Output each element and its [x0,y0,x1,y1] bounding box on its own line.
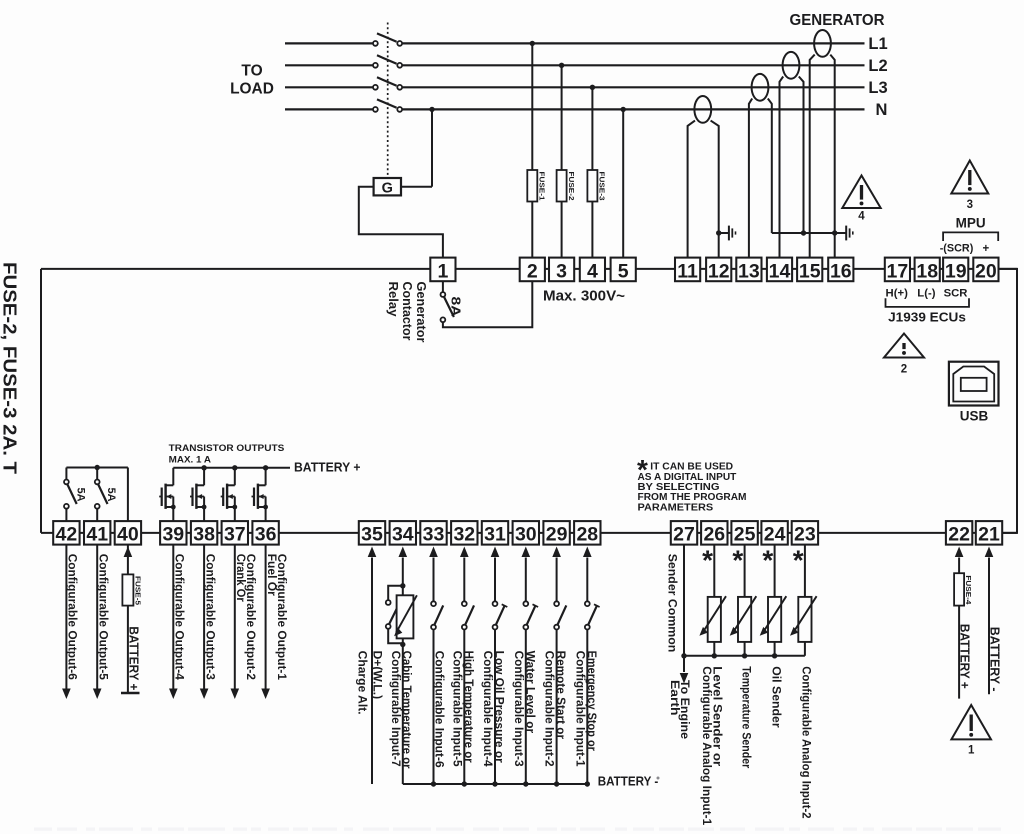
ground at terminal 12 [716,226,736,241]
wire N to G [429,107,434,187]
label Temperature Sender [739,666,753,768]
thermistor (term 34) [394,595,417,638]
label Configurable Output-3 [203,554,217,681]
svg-text:16: 16 [830,260,852,282]
output wire terminal 36 [261,545,270,699]
wire common to terminal 16 [834,233,836,258]
svg-text:13: 13 [738,260,760,282]
svg-text:18: 18 [916,260,938,282]
svg-text:5A: 5A [75,488,87,502]
wire+junction L1 to terminal 2 [527,41,537,258]
svg-text:4: 4 [587,260,598,282]
transistor output Q36 [252,468,269,521]
label Fuel Or Configurable Output-1 [265,554,289,681]
scan artifact strip (cut-off text) [34,828,1001,831]
wire G left to terminal 1 [359,187,443,258]
label Level Sender or Configurable Analog Input-1 [700,666,725,825]
svg-text:*: * [732,544,743,575]
label MPU [956,216,986,231]
sender wire terminal 26 [713,545,715,656]
svg-text:FUSE-1: FUSE-1 [538,172,547,201]
svg-text:31: 31 [484,524,506,546]
svg-text:Configurable Input-6: Configurable Input-6 [433,651,447,768]
svg-text:12: 12 [708,260,730,282]
label FUSE-2, FUSE-3 2A.T [0,262,20,474]
input switch terminal 32 [460,547,474,785]
right bus wire [999,269,1018,533]
output wire terminal 39 [169,545,178,699]
svg-text:MAX. 1 A: MAX. 1 A [169,454,212,464]
svg-text:1: 1 [968,745,975,757]
breaker switch pole L3 [373,77,402,89]
generator contactor relay contact 8A [441,281,533,327]
input switch terminal 29 [552,547,566,785]
fuse FUSE-2 [567,172,576,201]
input switch terminal 30 [522,547,539,785]
variable resistor sender 23 [790,596,817,642]
svg-text:27: 27 [673,524,695,546]
svg-text:TRANSISTOR OUTPUTS: TRANSISTOR OUTPUTS [169,443,285,453]
svg-text:29: 29 [546,524,568,546]
label Low Oil Pressure or Configurable Input-4 [481,651,506,767]
svg-text:Configurable Analog Input-2: Configurable Analog Input-2 [800,666,814,819]
relay contact 5A above terminal 41 [95,468,108,522]
svg-text:Configurable Output-4: Configurable Output-4 [173,554,187,681]
svg-text:Charge Alt.: Charge Alt. [356,651,370,715]
label 8A [449,297,464,318]
label 5A (left) [75,488,87,502]
current transformer CT1 [688,96,719,258]
svg-text:Configurable Input-2: Configurable Input-2 [543,651,557,767]
wire terminal 22 battery+ [955,547,964,699]
row2 terminal bus wire [41,532,1017,534]
wire battery+ to relays [66,465,128,521]
variable resistor sender 24 [760,596,787,642]
generator G box [374,178,401,197]
label Water Level or Configurable Input-3 [512,651,537,767]
wire G right [401,186,432,188]
svg-text:3: 3 [556,260,567,282]
svg-text:5: 5 [618,260,629,282]
fuse FUSE-4 [954,573,973,605]
svg-text:G: G [382,181,393,197]
bus line L2 [285,64,865,66]
bus line L3 [285,86,865,88]
warning triangle 4 [842,176,880,223]
wire+junction L3 to terminal 4 [587,85,597,258]
output wire terminal 41 [93,545,102,699]
svg-text:8A: 8A [449,297,464,318]
label Cabin Temperature or Configurable Input-7 [389,651,414,769]
svg-text:FUSE-4: FUSE-4 [964,575,973,605]
svg-text:25: 25 [734,524,756,546]
svg-text:Configurable Output-3: Configurable Output-3 [203,554,217,681]
svg-text:H(+): H(+) [886,288,909,300]
label Configurable Input-6 [433,651,447,768]
input switch terminal 28 [583,547,600,785]
current transformer CT3 [780,52,804,258]
svg-text:LOAD: LOAD [230,81,274,98]
wire+junction L2 to terminal 3 [557,63,567,258]
label Crank Or Configurable Output-2 [234,554,258,681]
transistor output Q38 [190,468,207,521]
input switch terminal 31 [491,547,508,785]
wire terminal 40 battery+ [121,545,140,693]
svg-text:BATTERY +: BATTERY + [958,624,973,689]
note: digital input selection [637,454,747,513]
svg-text:32: 32 [453,524,475,546]
svg-text:15: 15 [799,260,821,282]
label To Engine Earth [668,680,692,739]
to engine earth arrow [680,656,689,684]
label 5A (right) [105,488,117,502]
svg-text:35: 35 [361,524,383,546]
relay contact 5A above terminal 42 [64,468,77,522]
asterisk 26 [702,544,713,575]
svg-text:L1: L1 [868,35,887,53]
label Remote Start or Configurable Input-2 [543,651,568,767]
CT common wire [772,230,838,235]
svg-text:Temperature Sender: Temperature Sender [739,666,753,768]
ground at CT common [836,226,853,241]
svg-text:37: 37 [224,524,246,546]
svg-text:1: 1 [437,260,448,282]
svg-text:42: 42 [56,524,78,546]
svg-text:N: N [876,101,888,119]
svg-text:Configurable Output-2: Configurable Output-2 [244,554,258,681]
asterisk 25 [732,544,743,575]
label Sender Common [665,554,679,653]
speck [657,777,660,780]
label Configurable Output-5 [97,554,111,681]
svg-text:22: 22 [948,524,970,546]
svg-text:4: 4 [858,211,865,223]
cabin temperature sender circuit (term 34) [386,547,407,785]
label High Temperature or Configurable Input-5 [450,651,475,767]
svg-text:41: 41 [86,524,108,546]
USB connector icon [949,362,999,406]
label USB [960,409,989,424]
label BATTERY + (22) [958,624,973,689]
terminal row 2 (21-42) [53,521,1002,546]
svg-text:2: 2 [527,260,538,282]
svg-text:BATTERY -: BATTERY - [988,627,1003,692]
sender wire terminal 25 [744,545,746,656]
svg-text:30: 30 [515,524,537,546]
svg-text:TO: TO [241,63,262,80]
label H(+) L(-) SCR [886,288,968,300]
svg-text:FUSE-2: FUSE-2 [567,172,576,201]
svg-text:23: 23 [794,524,816,546]
current transformer CT2 [749,74,772,258]
svg-text:Relay: Relay [386,282,400,317]
svg-text:24: 24 [764,524,786,546]
svg-text:D+(W.L.): D+(W.L.) [371,651,385,700]
label L3 [868,79,887,97]
svg-text:Configurable Output-6: Configurable Output-6 [66,554,80,681]
svg-text:BATTERY +: BATTERY + [127,626,142,690]
arrow into 35 [368,547,377,558]
MPU bracket [943,232,998,241]
label Oil Sender [769,666,783,728]
bus line N [285,108,865,110]
label Configurable Analog Input-2 [800,666,814,819]
label BATTERY + (transistor) [294,461,361,475]
label BATTERY + (40) [127,626,142,690]
svg-text:40: 40 [117,524,139,546]
sender wire terminal 24 [774,545,776,656]
wire transistor battery+ [173,465,290,470]
svg-text:Configurable Output-1: Configurable Output-1 [275,554,289,681]
svg-text:19: 19 [945,260,967,282]
svg-text:Configurable Analog Input-1: Configurable Analog Input-1 [700,666,714,825]
svg-text:Sender Common: Sender Common [665,554,679,653]
svg-text:26: 26 [703,524,725,546]
svg-text:FUSE-3: FUSE-3 [598,172,607,201]
output wire terminal 42 [62,545,71,699]
svg-text:Configurable Output-5: Configurable Output-5 [97,554,111,681]
asterisk 23 [793,544,804,575]
input switch terminal 33 [429,547,443,785]
breaker switch pole L2 [373,55,402,67]
label D+(W.L.) Charge Alt. [356,651,385,715]
svg-text:28: 28 [576,524,598,546]
terminal row 1 (1-20) [430,258,998,283]
label L1 [868,35,887,53]
label GENERATOR [790,12,885,29]
label Configurable Output-4 [173,554,187,681]
transistor output Q37 [221,468,238,521]
svg-text:*: * [793,544,804,575]
svg-text:34: 34 [392,524,414,546]
svg-text:FUSE-2, FUSE-3 2A. T: FUSE-2, FUSE-3 2A. T [0,262,20,474]
breaker switch pole L1 [373,33,402,45]
svg-text:17: 17 [887,260,909,282]
svg-text:39: 39 [162,524,184,546]
output wire terminal 38 [200,545,209,699]
svg-text:20: 20 [975,260,997,282]
svg-text:Configurable Input-5: Configurable Input-5 [450,651,464,767]
asterisk 24 [762,544,773,575]
svg-text:14: 14 [769,260,791,282]
svg-text:38: 38 [193,524,215,546]
label BATTERY - (21) [988,627,1003,692]
label TRANSISTOR OUTPUTS [169,443,285,465]
current transformer CT4 [810,30,835,258]
left bus wire [40,269,42,533]
svg-text:+: + [982,243,989,255]
breaker linkage (dotted) [387,23,389,179]
transistor output Q39 [159,468,176,521]
label BATTERY - [598,774,659,789]
wire terminal 21 battery- [985,547,994,695]
svg-text:Earth: Earth [668,680,682,716]
svg-text:L3: L3 [868,79,887,97]
warning triangle 2 [884,334,924,376]
row1 terminal bus wire [41,268,1017,270]
svg-text:USB: USB [960,409,989,424]
svg-text:Oil Sender: Oil Sender [769,666,783,728]
output wire terminal 37 [231,545,240,699]
svg-text:BATTERY -: BATTERY - [598,774,659,789]
fuse FUSE-1 [538,172,547,201]
svg-text:Configurable Input-3: Configurable Input-3 [512,651,526,767]
svg-text:BATTERY +: BATTERY + [294,461,361,475]
wire N to terminal 5 [621,107,626,258]
label -(SCR) + [940,242,990,254]
warning triangle 1 [951,705,991,757]
label Configurable Output-6 [66,554,80,681]
svg-text:L(-): L(-) [917,288,935,300]
svg-text:FUSE-5: FUSE-5 [133,576,142,605]
label Emergency Stop or Configurable Input-1 [573,651,598,767]
label Max. 300V~ [543,289,625,305]
svg-text:Generator: Generator [414,282,428,343]
svg-text:*: * [762,544,773,575]
svg-text:Configurable Input-4: Configurable Input-4 [481,651,495,767]
battery- bus wire [403,781,590,786]
variable resistor sender 25 [730,596,757,642]
label N [876,101,888,119]
label J1939 ECUs [888,310,966,325]
fuse FUSE-5 [122,574,142,605]
svg-text:3: 3 [967,199,973,211]
svg-text:2: 2 [901,364,907,376]
svg-text:MPU: MPU [956,216,986,231]
svg-text:Configurable Input-1: Configurable Input-1 [573,651,587,767]
label Generator Contactor Relay [386,282,428,343]
svg-text:GENERATOR: GENERATOR [790,12,885,29]
svg-text:36: 36 [255,524,277,546]
svg-text:5A: 5A [105,488,117,502]
svg-text:33: 33 [423,524,445,546]
svg-text:11: 11 [677,260,698,282]
J1939 bracket [886,298,970,307]
label L2 [868,57,887,75]
svg-text:-(SCR): -(SCR) [940,242,974,254]
label TO LOAD [230,63,274,98]
svg-text:SCR: SCR [944,288,968,300]
svg-text:*: * [702,544,713,575]
fuse FUSE-3 [598,172,607,201]
svg-text:Max. 300V~: Max. 300V~ [543,289,625,305]
svg-text:Contactor: Contactor [400,282,414,341]
sender wire terminal 23 [804,545,806,656]
breaker switch pole N [373,99,402,111]
sender common wire (27) [683,545,685,656]
sender bus [681,653,805,658]
svg-text:J1939 ECUs: J1939 ECUs [888,310,966,325]
svg-text:21: 21 [978,524,1000,546]
bus line L1 [285,42,865,44]
charge alt wire [371,558,373,785]
warning triangle 3 [951,161,988,212]
svg-text:L2: L2 [868,57,887,75]
svg-text:Configurable Input-7: Configurable Input-7 [389,651,403,767]
svg-text:PARAMETERS: PARAMETERS [638,501,714,513]
variable resistor sender 26 [699,596,726,642]
